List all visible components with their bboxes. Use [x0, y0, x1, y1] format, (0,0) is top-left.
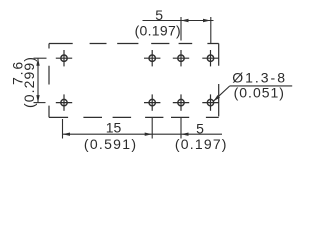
bottom middle extension line — [151, 118, 153, 139]
bottom shared arrow at 15/5 boundary — [145, 133, 153, 136]
svg-text:(0.197): (0.197) — [135, 23, 181, 39]
hole H4 (top-right pad) — [202, 50, 218, 66]
hole H8 (bottom-right pad) — [202, 94, 218, 110]
svg-text:15: 15 — [106, 120, 122, 136]
bottom right extension line — [180, 118, 182, 139]
hole H3 (top row) — [173, 50, 189, 66]
component outline right edge — [218, 44, 220, 117]
hole size leader diagonal line — [214, 86, 230, 101]
bottom 5mm right arrow — [181, 133, 189, 136]
top dimension left extension line — [180, 17, 182, 41]
hole H5 (bottom-left pad) — [56, 94, 72, 110]
svg-text:5: 5 — [196, 121, 204, 137]
left dimension 7.6mm: dimension line — [37, 58, 39, 102]
svg-text:(0.051): (0.051) — [234, 84, 285, 100]
component outline left edge — [48, 44, 50, 118]
bottom left extension line — [62, 119, 64, 139]
hole H6 (bottom row) — [144, 94, 160, 110]
hole H7 (bottom row) — [173, 94, 189, 110]
left dimension bottom arrow — [36, 95, 39, 103]
top dimension left arrow — [181, 19, 189, 22]
svg-text:Ø1.3-8: Ø1.3-8 — [232, 69, 287, 85]
left dimension top extension line — [34, 57, 47, 59]
bottom dimension line (15mm and 5mm) — [63, 133, 223, 135]
svg-text:(0.197): (0.197) — [175, 136, 228, 152]
bottom 15mm left arrow — [63, 133, 71, 136]
top dimension 5mm: dimension line — [143, 20, 214, 22]
component outline bottom edge — [49, 116, 219, 118]
component outline (dashed PCB footprint rectangle) top edge — [49, 43, 219, 45]
hole size leader arrowhead — [213, 95, 220, 101]
hole size leader shoulder line — [230, 85, 292, 87]
svg-text:(0.299): (0.299) — [21, 56, 37, 108]
hole H2 (top row) — [144, 50, 160, 66]
svg-text:(0.591): (0.591) — [84, 136, 137, 152]
svg-text:5: 5 — [155, 7, 163, 23]
left dimension top arrow — [36, 58, 39, 65]
left dimension bottom extension line — [34, 102, 46, 104]
top dimension right arrow — [203, 19, 211, 22]
top dimension right extension line — [210, 17, 212, 44]
hole H1 (top-left pad) — [56, 50, 72, 66]
